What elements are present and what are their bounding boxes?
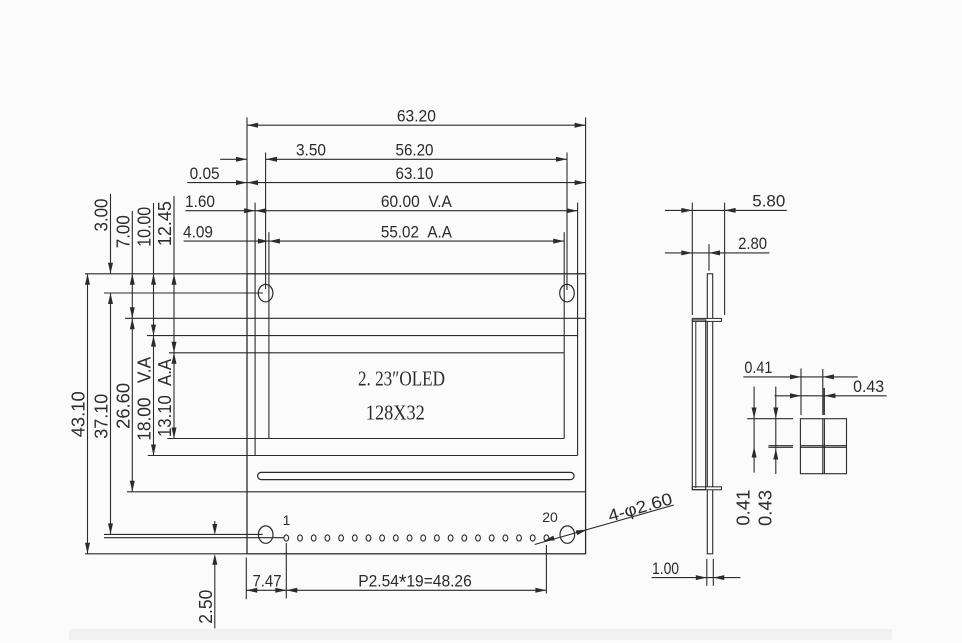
ext hole centerline left (104, 292, 263, 294)
dim line 7.47 (246, 589, 286, 591)
svg-text:18.00 V.A: 18.00 V.A (135, 357, 155, 441)
dim line 55.02 AA (269, 240, 564, 242)
pin 1 (284, 535, 289, 541)
svg-text:63.10: 63.10 (396, 164, 434, 183)
dim stem 0.05 (187, 182, 247, 184)
ext line hole right top (566, 153, 568, 291)
svg-text:4.09: 4.09 (183, 222, 213, 241)
arrow 4.09 (258, 239, 269, 244)
svg-text:0.43: 0.43 (755, 490, 775, 526)
pin 11 (421, 535, 426, 541)
ext pins line (104, 537, 284, 539)
pin 2 (298, 535, 303, 541)
side pcb bar (707, 274, 712, 554)
arrow 0.41v bottom (752, 447, 757, 458)
pin 9 (393, 535, 398, 541)
svg-text:2.80: 2.80 (738, 234, 767, 253)
svg-text:7.47: 7.47 (253, 572, 282, 591)
arrow 2.80 left (681, 250, 692, 255)
pin 3 (311, 535, 316, 541)
svg-text:55.02 A.A: 55.02 A.A (381, 222, 453, 241)
svg-text:2. 23″OLED: 2. 23″OLED (358, 367, 445, 391)
arrow 55.02 right (553, 239, 564, 244)
pin 12 (435, 535, 440, 541)
ext detail row top left (747, 418, 793, 420)
arrow 0.41v top (752, 408, 757, 419)
frame bottom line (127, 491, 585, 493)
ext detail row mid left a (768, 445, 793, 447)
connector bar (258, 472, 574, 479)
arrow 18.00 bottom (151, 445, 156, 456)
dim stem 1.60 (185, 210, 255, 212)
svg-text:37.10: 37.10 (92, 394, 112, 439)
arrow 43.10 bottom (85, 543, 90, 554)
ext line pcb right top (585, 117, 587, 273)
svg-text:3.00: 3.00 (92, 199, 112, 232)
arrow 7.47 left (246, 588, 257, 593)
dim line 43.10 (87, 274, 89, 554)
arrow leader right (576, 530, 587, 535)
VA left edge (254, 203, 256, 456)
svg-text:1.00: 1.00 (652, 559, 679, 578)
svg-text:56.20: 56.20 (396, 141, 434, 160)
ext pin1 down (285, 543, 287, 598)
arrow 3.00 (108, 263, 113, 274)
side glass body (692, 320, 705, 490)
svg-text:3.50: 3.50 (296, 141, 326, 160)
pin 18 (517, 535, 522, 541)
dim stem 2.50 upper (214, 521, 216, 525)
arrow 0.41h left (790, 374, 801, 379)
dim stem 3.00 (110, 194, 112, 274)
svg-text:0.41: 0.41 (744, 358, 772, 377)
svg-text:0.41: 0.41 (734, 490, 754, 526)
dim 5.80 line (665, 209, 787, 211)
arrow 60.00 right (567, 208, 578, 213)
arrow leader left (544, 536, 555, 541)
pin 5 (339, 535, 344, 541)
arrow 7.47 right (275, 588, 286, 593)
dim line 63.20 (247, 124, 586, 126)
arrow 1.00 left (696, 575, 707, 580)
arrow 43.10 top (85, 274, 90, 285)
ext 1.00 right (712, 559, 714, 586)
pin 4 (325, 535, 330, 541)
VA right edge (577, 203, 579, 456)
svg-text:128X32: 128X32 (366, 401, 425, 425)
arrow 2.50 top (212, 524, 217, 535)
arrow 0.43v top (773, 408, 778, 419)
arrow 56.20 right (556, 157, 567, 162)
arrow 12.45 top (172, 274, 177, 285)
pin 13 (448, 535, 453, 541)
bottom grey band (69, 629, 892, 640)
dim 0.43v line (775, 387, 777, 475)
arrow 7.00 top (130, 274, 135, 285)
pin 16 (489, 535, 494, 541)
arrow 0.43v bottom (773, 449, 778, 460)
arrow P2.54 left (286, 588, 297, 593)
dim 0.43h line (775, 395, 887, 397)
pin 8 (380, 535, 385, 541)
arrow 26.60 top (130, 318, 135, 329)
hole bottom-right (560, 526, 575, 543)
arrow 37.10 bottom (108, 523, 113, 534)
svg-text:13.10 A.A: 13.10 A.A (155, 359, 175, 437)
arrow 55.02 left (269, 239, 280, 244)
pin 20 (544, 535, 549, 541)
arrow 1.00 right (713, 575, 724, 580)
dim 0.41v line (753, 387, 755, 473)
ext 1.00 left (706, 559, 708, 586)
dim 1.00 line (652, 577, 741, 579)
side top tab (692, 318, 721, 321)
pin 14 (462, 535, 467, 541)
arrow 7.00 bottom (130, 307, 135, 318)
dim line 7.00 26.60 (131, 211, 133, 492)
ext side left (691, 203, 693, 315)
arrow 10.00 top (151, 274, 156, 285)
dim line 37.10 (110, 293, 112, 534)
AA right edge (563, 232, 565, 438)
svg-text:2.50: 2.50 (196, 590, 216, 624)
dim stem 3.50 (220, 158, 247, 160)
PCB outline (247, 274, 586, 554)
svg-text:43.10: 43.10 (69, 391, 89, 437)
hole top-left (258, 284, 273, 301)
detail grid mid vertical a (822, 419, 824, 474)
arrow 63.20 left (247, 123, 258, 128)
detail grid mid vertical b (823, 419, 825, 474)
ext pcb left bottom (245, 558, 247, 600)
arrow 10.00 bottom (151, 325, 156, 336)
arrow 56.20 left (266, 157, 277, 162)
arrow 1.60 (244, 208, 255, 213)
svg-text:0.43: 0.43 (853, 377, 884, 396)
svg-text:7.00: 7.00 (113, 215, 133, 248)
AA bottom edge (167, 438, 564, 440)
svg-text:5.80: 5.80 (752, 192, 785, 211)
pin 10 (407, 535, 412, 541)
dim line 63.10 (247, 182, 586, 184)
arrow 63.10 left (247, 180, 258, 185)
arrow 2.80 right (709, 250, 720, 255)
pin 7 (366, 535, 371, 541)
dim 0.41h line (743, 376, 858, 378)
pin 17 (503, 535, 508, 541)
AA left edge (268, 232, 270, 438)
ext line hole left top (265, 153, 267, 290)
frame top line (125, 317, 585, 319)
arrow 37.10 top (108, 293, 113, 304)
side glass inner line (695, 322, 697, 489)
arrow 0.41h right (823, 374, 834, 379)
ext detail col mid up (822, 369, 824, 415)
ext holes bottom line (104, 533, 263, 535)
arrow 3.50 (236, 157, 247, 162)
ext bottom edge left (85, 553, 247, 555)
dim 2.80 line (665, 252, 770, 254)
arrow 5.80 right (725, 208, 736, 213)
svg-text:20: 20 (542, 509, 558, 525)
arrow 26.60 bottom (130, 481, 135, 492)
pin 6 (352, 535, 357, 541)
ext top edge left (85, 273, 247, 275)
ext line pcb left top (246, 117, 248, 273)
dim stem 4.09 (184, 240, 269, 242)
arrow 5.80 left (681, 208, 692, 213)
ext detail col left up (800, 369, 802, 416)
svg-text:1: 1 (283, 512, 291, 528)
side bottom tab (692, 487, 721, 490)
arrow 18.00 top (151, 336, 156, 347)
ext side right (724, 203, 726, 315)
arrow 12.45 bottom (172, 342, 177, 353)
svg-text:10.00: 10.00 (135, 207, 155, 247)
VA top edge (147, 335, 578, 337)
arrow 60.00 left (255, 208, 266, 213)
svg-text:1.60: 1.60 (185, 192, 215, 211)
arrow 63.20 right (575, 123, 586, 128)
dim line P2.54 (286, 589, 546, 591)
hole top-right (560, 284, 575, 301)
arrow 0.43h left (790, 393, 801, 398)
detail grid mid horizontal b (800, 446, 846, 448)
ext pin20 down (545, 545, 547, 594)
svg-text:60.00 V.A: 60.00 V.A (381, 192, 453, 211)
leader 4-phi2.60 (535, 505, 674, 545)
arrow 0.05 (236, 180, 247, 185)
arrow 63.10 right (575, 180, 586, 185)
dim line 56.20 (266, 158, 567, 160)
arrow 2.50 bottom (212, 554, 217, 565)
VA bottom edge (148, 455, 578, 457)
arrow 13.10 top (172, 353, 177, 364)
detail grid outer (800, 419, 846, 474)
ext detail row mid left b (768, 446, 793, 448)
svg-text:12.45: 12.45 (155, 201, 175, 246)
svg-text:26.60: 26.60 (113, 383, 133, 429)
hole bottom-left (258, 526, 273, 543)
detail grid mid horizontal a (800, 445, 846, 447)
arrow 0.43h right (824, 393, 835, 398)
svg-text:63.20: 63.20 (397, 106, 436, 125)
pin 19 (530, 535, 535, 541)
dim line 60.00 VA (255, 210, 577, 212)
AA top edge (169, 352, 564, 354)
dim line 12.45 13.10 (173, 196, 175, 439)
dim line 10.00 18.00 (153, 203, 155, 456)
ext side mid (708, 244, 710, 271)
pin 15 (476, 535, 481, 541)
dim stem 2.50 lower (214, 564, 216, 629)
svg-text:0.05: 0.05 (190, 164, 220, 183)
arrow P2.54 right (535, 588, 546, 593)
arrow 13.10 bottom (172, 428, 177, 439)
ext detail col mid up thick (823, 388, 825, 415)
pin row (284, 535, 549, 541)
